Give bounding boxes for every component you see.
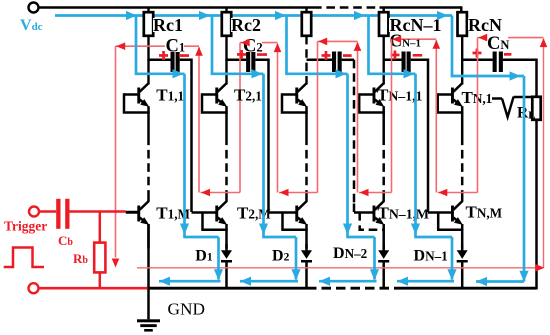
svg-text:TN–1,M: TN–1,M	[378, 203, 430, 222]
svg-text:T2,M: T2,M	[237, 203, 271, 222]
svg-text:T2,1: T2,1	[234, 85, 262, 104]
svg-text:Rc2: Rc2	[231, 15, 261, 35]
svg-text:Rc1: Rc1	[153, 15, 183, 35]
svg-text:RcN: RcN	[468, 15, 502, 35]
svg-text:Trigger: Trigger	[4, 219, 47, 234]
svg-text:DN–1: DN–1	[414, 248, 448, 265]
svg-text:GND: GND	[168, 300, 205, 319]
svg-text:DN–2: DN–2	[333, 245, 368, 262]
svg-text:T1,1: T1,1	[156, 85, 184, 104]
svg-text:TN,M: TN,M	[466, 203, 503, 222]
